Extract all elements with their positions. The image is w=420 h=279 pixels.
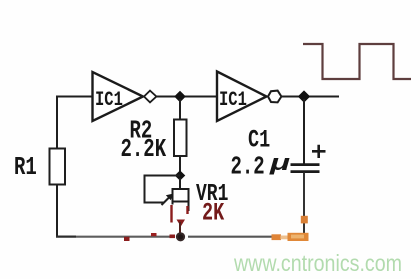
svg-text:C1: C1 xyxy=(248,126,270,154)
orange watermark fragments xyxy=(272,234,282,240)
wire: inverter2 output stub xyxy=(281,96,339,98)
op-amp U2 inverter IC1 (second) xyxy=(217,72,267,122)
svg-text:2K: 2K xyxy=(202,199,225,227)
inverter bubble (second) xyxy=(268,91,281,103)
wire: node B down to VR1 xyxy=(179,178,181,189)
wire: wiper feedback loop xyxy=(145,176,181,203)
wire: R2 bottom to node B xyxy=(179,156,181,176)
polarity plus sign xyxy=(312,145,326,158)
red watermark strokes on VR1 bottom xyxy=(170,205,172,223)
node D (junction at inverter2 output) xyxy=(298,90,310,102)
wire: node D down to C1 xyxy=(303,99,305,164)
op-amp U1 inverter IC1 (first) xyxy=(93,72,144,121)
resistor R2 xyxy=(174,120,187,157)
inverter bubble (first) xyxy=(144,91,156,103)
resistor R1 xyxy=(50,149,66,185)
svg-text:2.2: 2.2 xyxy=(231,152,265,182)
square wave output symbol xyxy=(303,44,411,79)
wire: wiper arrow diagonal xyxy=(162,197,171,206)
capacitor C1 plates xyxy=(291,163,320,166)
potentiometer VR1 body xyxy=(173,189,189,202)
wire: C1 bottom to bottom rail xyxy=(303,173,305,237)
wire: VR1 bottom to bottom rail xyxy=(179,222,181,233)
svg-text:www.cntronics.com: www.cntronics.com xyxy=(233,250,402,276)
wire: left rail below R1 xyxy=(56,185,58,237)
wiper arrowhead xyxy=(166,194,173,201)
svg-text:μ: μ xyxy=(268,150,290,175)
wire: node A down to R2 xyxy=(179,99,181,120)
wire: top-left input wire and left rail xyxy=(57,97,92,149)
node B (junction R2 / VR1) xyxy=(175,170,186,180)
svg-text:2.2K: 2.2K xyxy=(121,134,167,164)
node A (junction at inverter1 output) xyxy=(174,91,186,102)
svg-text:R1: R1 xyxy=(14,152,37,182)
node C (junction on bottom rail) xyxy=(176,232,185,241)
svg-text:IC1: IC1 xyxy=(95,89,123,111)
red watermark specks on bottom rail xyxy=(124,237,130,241)
wire: inverter1 output to inverter2 input xyxy=(156,96,217,98)
svg-text:IC1: IC1 xyxy=(219,89,247,111)
wire: bottom rail xyxy=(56,235,76,237)
